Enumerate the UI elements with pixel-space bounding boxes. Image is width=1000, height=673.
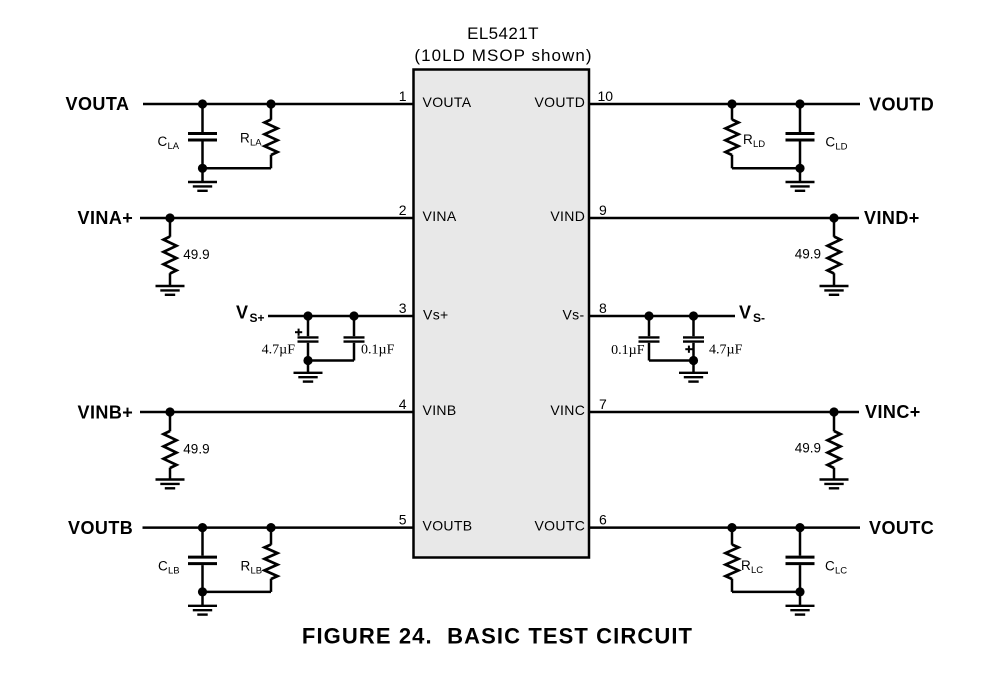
- polarity + mark (VS- cap): [685, 348, 692, 350]
- wire R_LC bottom lead: [731, 579, 734, 592]
- wire 49.9 B bottom lead: [169, 468, 172, 480]
- junction VIND+ / 49.9 resistor: [829, 213, 838, 222]
- resistor 49.9 (VINC+): [828, 431, 841, 468]
- wire ground stub C: [799, 592, 802, 606]
- svg-text:49.9: 49.9: [795, 247, 821, 262]
- wire C_LD top lead: [799, 104, 802, 132]
- wire C_LC top lead: [799, 528, 802, 556]
- svg-text:R: R: [240, 131, 250, 146]
- junction VOUTD / C_LD: [795, 99, 804, 108]
- junction VINC+ / 49.9 resistor: [829, 407, 838, 416]
- resistor 49.9 (VINB+): [164, 431, 177, 468]
- svg-text:VIND+: VIND+: [864, 208, 920, 228]
- svg-text:4.7µF: 4.7µF: [709, 343, 743, 358]
- svg-text:FIGURE 24. BASIC TEST CIRCUIT: FIGURE 24. BASIC TEST CIRCUIT: [302, 624, 693, 649]
- wire R_LC top lead: [731, 528, 734, 545]
- ground under C_LA: [188, 181, 217, 183]
- wire 49.9 A bottom lead: [169, 273, 172, 286]
- capacitor C_LD: [786, 132, 815, 135]
- svg-text:LB: LB: [251, 566, 263, 577]
- wire C_LA bottom lead: [201, 142, 204, 169]
- svg-text:S+: S+: [250, 311, 265, 325]
- ground under C_LD: [786, 181, 815, 183]
- wire 49.9 B top lead: [169, 412, 172, 431]
- svg-text:9: 9: [599, 202, 607, 218]
- svg-text:R: R: [241, 559, 251, 574]
- svg-text:LD: LD: [835, 142, 847, 153]
- svg-text:(10LD MSOP shown): (10LD MSOP shown): [414, 46, 592, 65]
- capacitor C_LC: [786, 556, 815, 559]
- svg-text:VINC+: VINC+: [865, 402, 921, 422]
- svg-text:EL5421T: EL5421T: [467, 24, 539, 43]
- junction VINB+ / 49.9 resistor: [165, 407, 174, 416]
- svg-text:3: 3: [399, 300, 407, 316]
- wire pin 6 to VOUTC: [589, 526, 860, 529]
- resistor 49.9 (VINA+): [164, 237, 177, 274]
- svg-text:LC: LC: [835, 566, 847, 577]
- svg-text:49.9: 49.9: [183, 442, 209, 457]
- junction VOUTC / R_LC: [727, 523, 736, 532]
- wire ground stub A: [201, 168, 204, 182]
- wire C_LC bottom lead: [799, 565, 802, 592]
- wire 49.9 D bottom lead: [833, 273, 836, 286]
- wire 4.7uF- bottom lead: [692, 343, 695, 361]
- wire C_LB bottom lead: [201, 565, 204, 592]
- svg-text:C: C: [158, 134, 168, 149]
- junction VS+ decoupling / ground: [303, 356, 312, 365]
- svg-text:VOUTA: VOUTA: [66, 94, 130, 114]
- svg-text:10: 10: [598, 88, 614, 104]
- ground under C_LC: [786, 605, 815, 607]
- svg-text:R: R: [743, 132, 753, 147]
- wire R_LD bottom lead: [731, 155, 734, 169]
- svg-text:VOUTD: VOUTD: [534, 94, 585, 110]
- svg-text:LA: LA: [250, 138, 262, 149]
- wire R_LA top lead: [270, 104, 273, 120]
- wire R_LA bottom to C_LA bottom: [203, 167, 272, 170]
- svg-text:LA: LA: [168, 141, 180, 152]
- svg-text:0.1µF: 0.1µF: [611, 343, 645, 358]
- capacitor 4.7uF (VS-): [683, 336, 704, 338]
- resistor R_LD: [726, 120, 739, 156]
- svg-text:1: 1: [399, 88, 407, 104]
- ground under 49.9 (VINA+): [156, 285, 185, 287]
- wire pin 8 to VS-: [589, 315, 735, 318]
- ground under 49.9 (VIND+): [820, 285, 849, 287]
- junction VOUTB / C_LB: [198, 523, 207, 532]
- wire ground stub VS+: [307, 361, 310, 373]
- svg-text:LB: LB: [168, 566, 180, 577]
- svg-text:6: 6: [599, 512, 607, 528]
- svg-text:VOUTC: VOUTC: [869, 518, 934, 538]
- wire C_LB top lead: [201, 528, 204, 556]
- wire ground stub VS-: [692, 361, 695, 373]
- wire 0.1uF+ bottom to 4.7uF+ bottom: [308, 359, 354, 362]
- svg-text:VOUTC: VOUTC: [534, 518, 585, 534]
- svg-text:C: C: [825, 135, 835, 150]
- svg-text:V: V: [236, 303, 248, 323]
- svg-text:C: C: [825, 559, 835, 574]
- ground under 49.9 (VINC+): [820, 478, 849, 480]
- junction VS+ / 4.7uF: [303, 311, 312, 320]
- svg-text:VINB: VINB: [423, 402, 457, 418]
- svg-text:VINC: VINC: [550, 402, 585, 418]
- wire R_LA bottom lead: [270, 155, 273, 169]
- svg-text:2: 2: [399, 202, 407, 218]
- svg-text:VIND: VIND: [550, 208, 585, 224]
- wire 0.1uF- top lead: [648, 316, 651, 336]
- wire pin 9 to VIND+: [589, 217, 859, 220]
- wire ground stub B: [201, 592, 204, 606]
- wire R_LC bottom to C_LC bottom: [732, 591, 800, 594]
- wire 49.9 A top lead: [169, 218, 172, 237]
- junction VOUTA / R_LA: [266, 99, 275, 108]
- svg-text:5: 5: [399, 512, 407, 528]
- wire 0.1uF- bottom to 4.7uF- bottom: [649, 359, 694, 362]
- capacitor 4.7uF (VS+): [298, 336, 319, 338]
- junction C_LC bottom / ground: [795, 587, 804, 596]
- svg-text:VINA: VINA: [423, 208, 457, 224]
- wire 4.7uF+ top lead: [307, 316, 310, 336]
- svg-text:VOUTD: VOUTD: [869, 95, 934, 115]
- capacitor 0.1uF (VS-): [639, 336, 660, 338]
- wire 4.7uF- top lead: [692, 316, 695, 336]
- ground under VS+ caps: [294, 372, 323, 374]
- svg-text:8: 8: [599, 300, 607, 316]
- svg-text:7: 7: [599, 396, 607, 412]
- capacitor C_LA: [188, 132, 217, 135]
- resistor R_LA: [265, 120, 278, 156]
- wire VS+ to pin 3: [268, 315, 414, 318]
- svg-text:VOUTB: VOUTB: [68, 518, 133, 538]
- junction C_LD bottom / ground: [795, 164, 804, 173]
- svg-text:0.1µF: 0.1µF: [361, 343, 395, 358]
- wire 0.1uF+ top lead: [353, 316, 356, 336]
- wire VINA+ to pin 2: [140, 217, 414, 220]
- wire 0.1uF+ bottom lead: [353, 343, 356, 361]
- svg-text:VINA+: VINA+: [78, 208, 134, 228]
- wire 0.1uF- bottom lead: [648, 343, 651, 361]
- ground under VS- caps: [679, 372, 708, 374]
- svg-text:C: C: [158, 559, 168, 574]
- junction VOUTA / C_LA: [198, 99, 207, 108]
- resistor R_LB: [265, 545, 278, 580]
- wire R_LD bottom to C_LD bottom: [732, 167, 800, 170]
- wire VOUTA to pin 1: [143, 103, 414, 106]
- wire R_LD top lead: [731, 104, 734, 120]
- junction VS+ / 0.1uF: [349, 311, 358, 320]
- capacitor 0.1uF (VS+): [344, 336, 365, 338]
- wire VOUTB to pin 5: [143, 526, 414, 529]
- junction VINA+ / 49.9 resistor: [165, 213, 174, 222]
- polarity + mark (VS+ cap): [295, 331, 302, 333]
- ground under C_LB: [188, 605, 217, 607]
- wire 49.9 D top lead: [833, 218, 836, 237]
- wire C_LA top lead: [201, 104, 204, 132]
- svg-text:4: 4: [399, 396, 407, 412]
- svg-text:49.9: 49.9: [183, 247, 209, 262]
- wire VINB+ to pin 4: [140, 411, 414, 414]
- junction C_LB bottom / ground: [198, 587, 207, 596]
- junction VOUTB / R_LB: [266, 523, 275, 532]
- svg-text:4.7µF: 4.7µF: [262, 343, 296, 358]
- ground under 49.9 (VINB+): [156, 478, 185, 480]
- svg-text:LC: LC: [751, 565, 763, 576]
- wire pin 7 to VINC+: [589, 411, 859, 414]
- resistor 49.9 (VIND+): [828, 237, 841, 274]
- svg-text:LD: LD: [753, 139, 765, 150]
- svg-text:VOUTA: VOUTA: [423, 94, 472, 110]
- svg-text:Vs+: Vs+: [423, 307, 449, 323]
- svg-text:Vs-: Vs-: [562, 307, 584, 323]
- junction C_LA bottom / ground: [198, 164, 207, 173]
- capacitor C_LB: [188, 556, 217, 559]
- svg-text:R: R: [741, 558, 751, 573]
- junction VOUTC / C_LC: [795, 523, 804, 532]
- wire 49.9 C top lead: [833, 412, 836, 431]
- junction VOUTD / R_LD: [727, 99, 736, 108]
- wire R_LB bottom lead: [270, 579, 273, 592]
- svg-text:V: V: [739, 303, 751, 323]
- wire 49.9 C bottom lead: [833, 468, 836, 480]
- wire 4.7uF+ bottom lead: [307, 343, 310, 361]
- svg-text:VOUTB: VOUTB: [423, 518, 473, 534]
- junction VS- / 4.7uF: [689, 311, 698, 320]
- junction VS- decoupling / ground: [689, 356, 698, 365]
- resistor R_LC: [726, 545, 739, 580]
- wire R_LB bottom to C_LB bottom: [203, 591, 272, 594]
- junction VS- / 0.1uF: [644, 311, 653, 320]
- wire C_LD bottom lead: [799, 142, 802, 169]
- svg-text:S-: S-: [753, 311, 765, 325]
- wire pin 10 to VOUTD: [589, 103, 860, 106]
- op-amp IC U1 EL5421T body (10LD MSOP): [414, 70, 590, 558]
- svg-text:49.9: 49.9: [795, 441, 821, 456]
- wire R_LB top lead: [270, 528, 273, 545]
- svg-text:VINB+: VINB+: [78, 403, 134, 423]
- wire ground stub D: [799, 168, 802, 182]
